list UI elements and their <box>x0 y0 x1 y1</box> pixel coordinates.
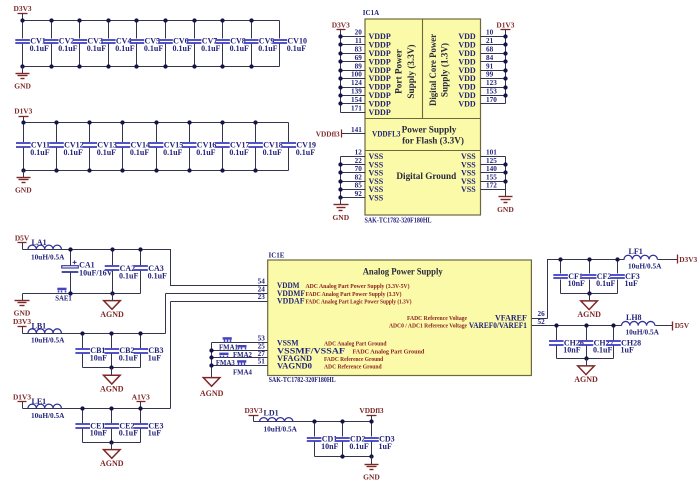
jumper FMA1 <box>219 337 238 351</box>
svg-text:0.1uF: 0.1uF <box>263 148 282 157</box>
ground GND <box>332 198 349 223</box>
svg-text:D1V3: D1V3 <box>14 107 32 116</box>
svg-text:Analog Power Supply: Analog Power Supply <box>363 267 443 277</box>
svg-text:22: 22 <box>355 157 363 165</box>
capacitor CH27 0.1uF <box>579 326 614 359</box>
svg-text:10nF: 10nF <box>321 442 338 451</box>
svg-text:LF1: LF1 <box>629 247 643 256</box>
svg-text:0.1uF: 0.1uF <box>119 271 138 280</box>
svg-text:10: 10 <box>486 29 494 37</box>
wire VAREF rail CH <box>557 325 622 327</box>
junction dots FMA bus <box>209 348 213 352</box>
svg-text:D1V3: D1V3 <box>13 392 31 401</box>
capacitor CF3 1uF <box>610 260 640 294</box>
net label VDDfl3 <box>316 130 342 139</box>
svg-text:0.1uF: 0.1uF <box>258 44 277 53</box>
svg-text:10uH/0.5A: 10uH/0.5A <box>626 328 660 337</box>
svg-text:ADC0 / ADC1 Reference Voltage: ADC0 / ADC1 Reference Voltage <box>389 323 467 330</box>
capacitor CV17 0.1uF <box>215 123 249 171</box>
svg-text:0.1uF: 0.1uF <box>87 44 106 53</box>
svg-text:Supply (3.3V): Supply (3.3V) <box>406 44 416 98</box>
pin 69 VDDP <box>341 54 391 67</box>
pin 20 VDDP <box>341 29 391 42</box>
svg-text:D3V3: D3V3 <box>332 20 350 29</box>
junction dots VDDP bus <box>338 34 342 38</box>
capacitor CV4 0.1uF <box>101 21 135 67</box>
junction dots LD row <box>312 419 316 423</box>
svg-text:A1V3: A1V3 <box>132 392 150 401</box>
wire AGND bus FMA <box>211 343 213 378</box>
junction dots VSS bus right <box>503 162 507 166</box>
pin 91 VDD <box>458 62 505 75</box>
svg-text:for Flash (3.3V): for Flash (3.3V) <box>402 136 464 146</box>
power D1V3 <box>14 107 32 123</box>
pin 70 VSS <box>341 165 384 178</box>
svg-text:0.1uF: 0.1uF <box>97 148 116 157</box>
svg-text:1uF: 1uF <box>621 346 634 355</box>
svg-text:D3V3: D3V3 <box>679 255 697 264</box>
svg-text:GND: GND <box>15 185 32 194</box>
pin 170 VDD <box>458 96 505 109</box>
wire D3V3 rail LB <box>23 294 268 334</box>
power D3V3 <box>678 255 698 265</box>
power D5V <box>15 233 30 249</box>
power A1V3 <box>132 392 150 408</box>
jumper FMA2 <box>233 345 252 359</box>
junction dots row1 <box>20 18 24 22</box>
svg-text:AGND: AGND <box>100 310 124 319</box>
svg-text:140: 140 <box>486 165 497 173</box>
svg-text:0.1uF: 0.1uF <box>287 44 306 53</box>
capacitor CV8 0.1uF <box>215 21 249 67</box>
capacitor CV11 0.1uF <box>16 123 50 171</box>
svg-text:124: 124 <box>351 79 362 87</box>
capacitor CH28 1uF <box>606 326 641 359</box>
wire GND bus IC1A right <box>505 157 507 190</box>
svg-text:171: 171 <box>351 105 362 113</box>
svg-text:0.1uF: 0.1uF <box>196 148 215 157</box>
svg-text:83: 83 <box>355 46 363 54</box>
svg-text:10nF: 10nF <box>90 353 107 362</box>
svg-text:0.1uF: 0.1uF <box>30 148 49 157</box>
pin 84 VDD <box>458 54 505 67</box>
svg-text:FADC Reference Voltage: FADC Reference Voltage <box>407 315 467 322</box>
inductor LD1 10uH/0.5A <box>260 408 298 433</box>
wire AGND rail CH <box>557 358 614 360</box>
pin 124 VDDP <box>341 79 391 92</box>
svg-text:LH8: LH8 <box>626 313 642 322</box>
svg-text:172: 172 <box>486 182 497 190</box>
svg-text:VDD: VDD <box>458 100 476 109</box>
jumper FMA4 <box>233 360 252 376</box>
pin 140 VSS <box>461 165 505 178</box>
wire LH8 to D5V <box>656 325 673 327</box>
wire D1V3 bus IC1A right <box>505 37 507 104</box>
wire D1V3 top rail row2 <box>24 122 289 124</box>
svg-text:139: 139 <box>351 88 362 96</box>
svg-text:VDDP: VDDP <box>369 108 391 117</box>
power D3V3 <box>13 317 31 334</box>
section label Power Supply for Flash (3.3V) <box>402 124 464 145</box>
inductor LB1 10uH/0.5A <box>28 322 65 345</box>
capacitor CF1 10nF <box>553 260 585 294</box>
svg-text:10nF: 10nF <box>90 429 107 438</box>
svg-text:IC1A: IC1A <box>363 9 379 17</box>
svg-text:LB1: LB1 <box>32 322 47 331</box>
wire D3V3 top rail row1 <box>23 20 280 22</box>
svg-text:0.1uF: 0.1uF <box>130 148 149 157</box>
jumper SAE1 <box>55 288 72 303</box>
capacitor CF2 0.1uF <box>582 260 616 294</box>
svg-text:FMA1: FMA1 <box>219 344 238 351</box>
pin 154 VDDP <box>341 96 391 109</box>
inductor LH8 10uH/0.5A <box>622 313 660 337</box>
pin 27 VFAGND <box>258 350 313 363</box>
wire pin 53 to AGND bus <box>212 342 268 344</box>
IC IC1A SAK-TC1782-320F180HL <box>363 9 481 224</box>
wire D3V3 rail LD <box>254 421 372 423</box>
capacitor CV13 0.1uF <box>82 123 116 171</box>
inductor LF1 10uH/0.5A <box>624 247 662 270</box>
wire AGND rail CE <box>83 442 141 444</box>
capacitor CA1 10uF/16V <box>62 250 113 294</box>
svg-text:23: 23 <box>258 293 266 301</box>
svg-text:ADC Analog Part Power Supply (: ADC Analog Part Power Supply (3.3V-5V) <box>306 283 410 290</box>
pin 89 VDDP <box>341 62 391 75</box>
svg-text:154: 154 <box>351 96 362 104</box>
wire D5V rail <box>23 250 268 286</box>
svg-text:FMA3: FMA3 <box>216 360 235 367</box>
wire AGND rail CF <box>561 293 618 295</box>
pin 11 VDDP <box>341 37 391 50</box>
svg-text:GND: GND <box>363 472 380 481</box>
svg-text:Digital Ground: Digital Ground <box>396 171 456 181</box>
capacitor CA3 0.1uF <box>133 250 167 294</box>
svg-text:0.1uF: 0.1uF <box>115 44 134 53</box>
pin 22 VSS <box>341 157 384 170</box>
svg-text:AGND: AGND <box>100 385 124 394</box>
inductor LE1 10uH/0.5A <box>28 397 65 420</box>
wire VFAREF rail CF <box>548 260 625 319</box>
svg-text:101: 101 <box>486 149 497 157</box>
capacitor CV18 0.1uF <box>248 123 282 171</box>
svg-text:84: 84 <box>486 54 494 62</box>
jumper FMA3 <box>216 353 235 367</box>
wire GND rail CD <box>315 456 372 458</box>
wire pin 51 to AGND bus <box>212 365 268 367</box>
svg-text:0.1uF: 0.1uF <box>593 346 612 355</box>
svg-text:85: 85 <box>355 182 363 190</box>
wire GND bus IC1A left <box>340 157 342 198</box>
junction dots CF row <box>558 257 562 261</box>
pin 53 VSSM <box>258 335 299 348</box>
pin 172 VSS <box>461 182 505 195</box>
svg-text:53: 53 <box>258 335 266 343</box>
capacitor CD3 1uF <box>364 422 394 457</box>
svg-text:GND: GND <box>497 205 514 214</box>
svg-text:11: 11 <box>355 37 362 45</box>
ground GND <box>14 294 31 318</box>
svg-text:D1V3: D1V3 <box>496 20 514 29</box>
pin 12 VSS <box>341 149 384 162</box>
section label Port Power Supply (3.3V) <box>394 44 417 98</box>
svg-text:0.1uF: 0.1uF <box>296 148 315 157</box>
svg-text:0.1uF: 0.1uF <box>119 429 138 438</box>
svg-text:155: 155 <box>486 173 497 181</box>
junction dots LA row <box>68 247 72 251</box>
svg-text:VDDfl3: VDDfl3 <box>359 406 384 415</box>
svg-text:21: 21 <box>486 37 494 45</box>
svg-text:10uH/0.5A: 10uH/0.5A <box>264 424 298 433</box>
svg-text:54: 54 <box>258 278 266 286</box>
junction dots LE row <box>80 406 84 410</box>
capacitor CB2 0.1uF <box>105 334 139 368</box>
svg-text:89: 89 <box>355 62 363 70</box>
pin 52 VAREF0/VAREF1 <box>469 318 557 330</box>
svg-text:D5V: D5V <box>15 233 30 242</box>
pin 82 VSS <box>341 173 384 186</box>
svg-text:Digital Core Power: Digital Core Power <box>428 34 438 106</box>
pin 92 VSS <box>341 190 384 203</box>
power D3V3 <box>14 4 32 21</box>
svg-text:FADC Reference Ground: FADC Reference Ground <box>324 356 384 363</box>
capacitor CD1 10nF <box>307 422 339 457</box>
svg-text:Supply (1.3V): Supply (1.3V) <box>440 43 450 97</box>
svg-text:VSS: VSS <box>461 185 476 194</box>
pin 85 VSS <box>341 182 384 195</box>
junction dots VSS bus left <box>338 162 342 166</box>
svg-text:1uF: 1uF <box>625 279 638 288</box>
pin 123 VDD <box>458 79 505 92</box>
wire LF1 to D3V3 <box>658 259 678 261</box>
ground AGND <box>100 443 124 468</box>
svg-text:0.1uF: 0.1uF <box>596 279 615 288</box>
svg-text:0.1uF: 0.1uF <box>148 271 167 280</box>
svg-text:AGND: AGND <box>100 459 124 468</box>
svg-text:SAE1: SAE1 <box>55 296 72 303</box>
capacitor CD2 0.1uF <box>335 422 369 457</box>
svg-text:20: 20 <box>355 29 363 37</box>
section label Digital Core Power Supply (1.3V) <box>428 34 450 106</box>
svg-text:D3V3: D3V3 <box>13 317 31 326</box>
svg-text:0.1uF: 0.1uF <box>163 148 182 157</box>
capacitor CV12 0.1uF <box>49 123 83 171</box>
junction dots CH row <box>554 323 558 327</box>
capacitor CV5 0.1uF <box>130 21 164 67</box>
svg-text:10uH/0.5A: 10uH/0.5A <box>31 336 65 345</box>
capacitor CV10 0.1uF <box>273 21 307 67</box>
svg-text:92: 92 <box>355 190 363 198</box>
svg-text:Power Supply: Power Supply <box>402 124 457 134</box>
svg-text:68: 68 <box>486 46 494 54</box>
svg-text:GND: GND <box>14 81 31 90</box>
svg-text:IC1E: IC1E <box>269 252 285 260</box>
svg-text:D5V: D5V <box>675 321 690 330</box>
svg-text:1uF: 1uF <box>379 442 392 451</box>
svg-text:Port Power: Port Power <box>394 49 404 94</box>
svg-text:LE1: LE1 <box>32 397 47 406</box>
ground AGND <box>100 294 124 319</box>
svg-text:FMA4: FMA4 <box>233 369 252 376</box>
pin 100 VDDP <box>341 71 391 84</box>
svg-text:70: 70 <box>355 165 363 173</box>
svg-text:12: 12 <box>355 149 363 157</box>
power D1V3 <box>13 392 31 408</box>
svg-text:0.1uF: 0.1uF <box>230 44 249 53</box>
svg-text:FADC Analog Part Ground: FADC Analog Part Ground <box>353 348 425 355</box>
svg-text:AGND: AGND <box>574 375 598 384</box>
capacitor CA2 0.1uF <box>105 250 139 294</box>
svg-text:170: 170 <box>486 96 497 104</box>
svg-text:123: 123 <box>486 79 497 87</box>
power VDDfl3 <box>359 406 384 422</box>
capacitor CE3 1uF <box>134 409 164 443</box>
wire D1V3 rail LE <box>23 302 268 409</box>
svg-text:AGND: AGND <box>577 310 601 319</box>
inductor LA1 10uH/0.5A <box>28 238 65 261</box>
pin 139 VDDP <box>341 88 391 101</box>
svg-text:SAK-TC1782-320F180HL: SAK-TC1782-320F180HL <box>269 377 336 384</box>
junction dots LB row <box>80 331 84 335</box>
ground AGND <box>577 294 601 320</box>
svg-text:0.1uF: 0.1uF <box>144 44 163 53</box>
svg-text:VDDfl3: VDDfl3 <box>316 130 340 139</box>
pin 153 VDD <box>458 88 505 101</box>
wire analog ground rail LA <box>23 293 141 295</box>
capacitor CV19 0.1uF <box>282 123 316 171</box>
svg-text:1uF: 1uF <box>148 429 161 438</box>
pin 83 VDDP <box>341 46 391 59</box>
svg-text:D3V3: D3V3 <box>14 4 32 13</box>
svg-text:0.1uF: 0.1uF <box>64 148 83 157</box>
ground GND <box>363 457 380 482</box>
wire D3V3 bus IC1A left <box>340 37 342 113</box>
capacitor CB1 10nF <box>75 334 107 368</box>
svg-text:VAGND0: VAGND0 <box>277 362 312 371</box>
svg-text:0.1uF: 0.1uF <box>229 148 248 157</box>
ground AGND FMA <box>200 378 224 398</box>
svg-text:10uH/0.5A: 10uH/0.5A <box>31 411 65 420</box>
svg-text:153: 153 <box>486 88 497 96</box>
svg-text:FADC Analog Part Logic Power S: FADC Analog Part Logic Power Supply (1.3… <box>306 299 412 306</box>
pin 25 VSSMF/VSSAF <box>258 343 346 356</box>
capacitor CE2 0.1uF <box>105 409 139 443</box>
ground GND <box>14 67 31 91</box>
svg-text:10uH/0.5A: 10uH/0.5A <box>628 261 662 270</box>
svg-text:82: 82 <box>355 173 363 181</box>
capacitor CB3 1uF <box>134 334 164 368</box>
pin 125 VSS <box>461 157 505 170</box>
capacitor CV7 0.1uF <box>187 21 221 67</box>
pin 99 VDD <box>458 71 505 84</box>
power D1V3 <box>496 20 514 36</box>
capacitor CV1 0.1uF <box>15 21 49 67</box>
svg-text:0.1uF: 0.1uF <box>58 44 77 53</box>
svg-text:10nF: 10nF <box>563 346 580 355</box>
svg-text:0.1uF: 0.1uF <box>173 44 192 53</box>
capacitor CV14 0.1uF <box>116 123 150 171</box>
ground AGND <box>100 368 124 394</box>
svg-text:69: 69 <box>355 54 363 62</box>
IC IC1E SAK-TC1782-320F180HL <box>268 252 532 384</box>
svg-text:VAREF0/VAREF1: VAREF0/VAREF1 <box>469 321 527 330</box>
pin 10 VDD <box>458 29 505 42</box>
power D3V3 <box>244 406 262 422</box>
svg-text:100: 100 <box>351 71 362 79</box>
svg-text:1uF: 1uF <box>148 353 161 362</box>
svg-text:GND: GND <box>332 213 349 222</box>
pin 155 VSS <box>461 173 505 186</box>
svg-text:141: 141 <box>351 126 362 134</box>
power D3V3 <box>332 20 350 36</box>
svg-text:FADC Analog Part Power Supply: FADC Analog Part Power Supply (3.3V) <box>306 291 402 298</box>
pin 141 VDDFL3 <box>342 126 401 139</box>
junction dots row2 <box>21 120 25 124</box>
pin 101 VSS <box>461 149 505 162</box>
svg-text:0.1uF: 0.1uF <box>119 353 138 362</box>
svg-text:VDDAF: VDDAF <box>277 297 305 306</box>
capacitor CV15 0.1uF <box>149 123 183 171</box>
svg-text:VSS: VSS <box>369 193 384 202</box>
power D5V <box>673 321 690 330</box>
pin 26 VFAREF <box>495 310 547 322</box>
svg-text:ADC Reference Ground: ADC Reference Ground <box>324 364 382 371</box>
svg-text:125: 125 <box>486 157 497 165</box>
svg-text:10uH/0.5A: 10uH/0.5A <box>31 252 65 261</box>
capacitor CV16 0.1uF <box>182 123 216 171</box>
wire GND bottom rail row2 <box>24 170 289 172</box>
pin 171 VDDP <box>341 105 391 118</box>
svg-text:0.1uF: 0.1uF <box>30 44 49 53</box>
svg-text:LA1: LA1 <box>32 238 47 247</box>
capacitor CV9 0.1uF <box>244 21 278 67</box>
capacitor CV6 0.1uF <box>158 21 192 67</box>
capacitor CE1 10nF <box>75 409 107 443</box>
junction dots VDD bus <box>503 34 507 38</box>
svg-text:AGND: AGND <box>200 389 224 398</box>
ground GND <box>497 190 514 214</box>
pin 68 VDD <box>458 46 505 59</box>
wire pin 27 to AGND bus <box>212 357 268 359</box>
svg-text:0.1uF: 0.1uF <box>349 442 368 451</box>
svg-text:99: 99 <box>486 71 494 79</box>
wire pin 25 to AGND bus <box>212 350 268 352</box>
svg-text:SAK-TC1782-320F180HL: SAK-TC1782-320F180HL <box>365 217 432 224</box>
wire AGND rail CB <box>83 367 141 369</box>
svg-text:52: 52 <box>538 318 546 326</box>
svg-text:D3V3: D3V3 <box>244 406 262 415</box>
svg-text:0.1uF: 0.1uF <box>201 44 220 53</box>
wire GND bottom rail row1 <box>23 66 280 68</box>
svg-text:VDDFL3: VDDFL3 <box>372 130 401 139</box>
capacitor CV3 0.1uF <box>73 21 107 67</box>
svg-text:FMA2: FMA2 <box>233 352 252 359</box>
svg-text:10nF: 10nF <box>568 279 585 288</box>
ground AGND <box>574 359 598 385</box>
capacitor CV2 0.1uF <box>44 21 78 67</box>
svg-text:51: 51 <box>258 358 266 366</box>
pin 21 VDD <box>458 37 505 50</box>
capacitor CH26 10nF <box>549 326 584 359</box>
ground GND <box>15 171 32 195</box>
pin 51 VAGND0 <box>258 358 312 371</box>
svg-text:91: 91 <box>486 62 494 70</box>
svg-text:LD1: LD1 <box>264 408 279 417</box>
